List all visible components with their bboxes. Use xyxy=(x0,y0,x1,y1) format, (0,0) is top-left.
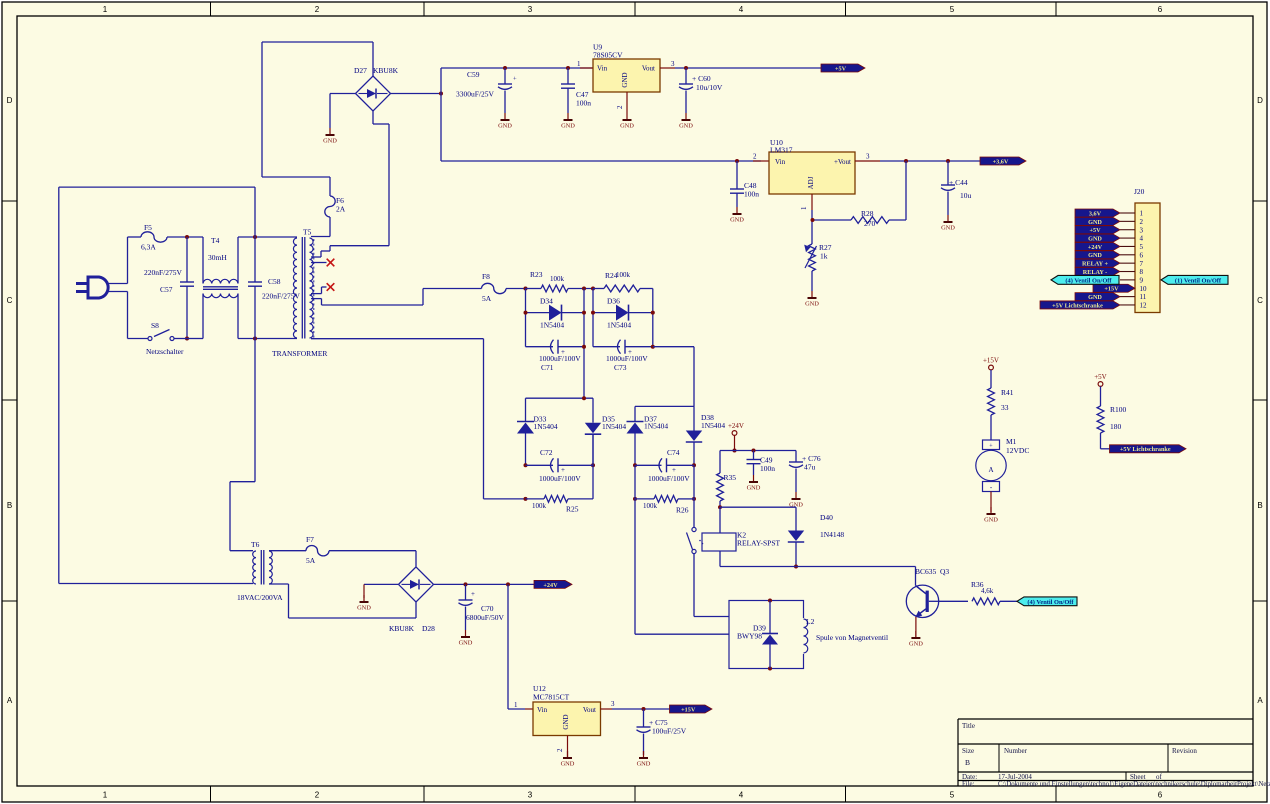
svg-text:C73: C73 xyxy=(614,363,627,372)
svg-text:3: 3 xyxy=(1140,226,1144,234)
svg-text:4: 4 xyxy=(739,5,744,14)
svg-text:100n: 100n xyxy=(744,190,759,199)
svg-text:+24V: +24V xyxy=(1088,244,1103,251)
svg-text:D28: D28 xyxy=(422,624,435,633)
svg-text:GND: GND xyxy=(621,72,629,87)
svg-text:Date:: Date: xyxy=(962,773,977,781)
svg-text:8: 8 xyxy=(1140,268,1144,276)
svg-text:4: 4 xyxy=(1140,235,1144,243)
svg-text:+15V: +15V xyxy=(1104,286,1119,293)
svg-text:BC635 Q3: BC635 Q3 xyxy=(915,567,949,576)
svg-text:B: B xyxy=(7,501,12,510)
svg-text:GND: GND xyxy=(679,123,693,130)
svg-text:1N5404: 1N5404 xyxy=(540,321,564,330)
svg-text:C: C xyxy=(1257,296,1263,305)
svg-text:S8: S8 xyxy=(151,321,159,330)
svg-text:R28: R28 xyxy=(861,209,874,218)
svg-text:C70: C70 xyxy=(481,604,494,613)
svg-text:L2: L2 xyxy=(806,617,815,626)
svg-text:Title: Title xyxy=(962,722,975,730)
svg-text:1000uF/100V: 1000uF/100V xyxy=(606,354,648,363)
svg-text:Vin: Vin xyxy=(775,158,786,166)
svg-text:18VAC/200VA: 18VAC/200VA xyxy=(237,593,283,602)
svg-text:B: B xyxy=(1257,501,1262,510)
svg-text:GND: GND xyxy=(805,301,819,308)
svg-text:GND: GND xyxy=(561,123,575,130)
svg-text:100k: 100k xyxy=(643,502,658,510)
svg-text:T6: T6 xyxy=(251,540,260,549)
svg-text:10: 10 xyxy=(1140,285,1148,293)
svg-text:TRANSFORMER: TRANSFORMER xyxy=(272,349,327,358)
svg-text:C: C xyxy=(7,296,13,305)
svg-text:2: 2 xyxy=(315,5,320,14)
svg-text:1N5404: 1N5404 xyxy=(534,422,558,431)
svg-text:1: 1 xyxy=(103,791,108,800)
svg-text:R26: R26 xyxy=(676,506,689,515)
svg-text:(4) Ventil On/Off: (4) Ventil On/Off xyxy=(1027,599,1074,606)
svg-text:GND: GND xyxy=(941,225,955,232)
svg-text:1: 1 xyxy=(103,5,108,14)
svg-text:GND: GND xyxy=(620,123,634,130)
svg-text:3: 3 xyxy=(611,700,615,708)
svg-text:3,6V: 3,6V xyxy=(1089,210,1102,217)
svg-text:5: 5 xyxy=(950,791,955,800)
svg-text:D36: D36 xyxy=(607,297,620,306)
svg-text:+5V: +5V xyxy=(1089,227,1101,234)
svg-text:+: + xyxy=(672,466,676,474)
svg-text:+5V Lichtschranke: +5V Lichtschranke xyxy=(1120,446,1171,453)
svg-text:F7: F7 xyxy=(306,535,314,544)
svg-text:47u: 47u xyxy=(804,463,816,472)
svg-text:+15V: +15V xyxy=(983,357,999,365)
svg-text:100uF/25V: 100uF/25V xyxy=(652,727,687,736)
svg-text:5A: 5A xyxy=(306,556,316,565)
svg-text:KBU8K: KBU8K xyxy=(389,624,415,633)
svg-text:A: A xyxy=(1257,696,1263,705)
svg-text:+5V Lichtschranke: +5V Lichtschranke xyxy=(1052,302,1103,309)
svg-text:C57: C57 xyxy=(160,285,173,294)
svg-text:Number: Number xyxy=(1004,747,1028,755)
svg-text:1000uF/100V: 1000uF/100V xyxy=(539,474,581,483)
svg-text:33: 33 xyxy=(1001,403,1009,412)
svg-text:T4: T4 xyxy=(211,236,220,245)
svg-text:R35: R35 xyxy=(724,473,737,482)
svg-text:3: 3 xyxy=(528,5,533,14)
svg-text:D: D xyxy=(7,96,13,105)
svg-text:10u/10V: 10u/10V xyxy=(696,83,723,92)
svg-text:C58: C58 xyxy=(268,277,281,286)
svg-text:100n: 100n xyxy=(760,464,775,473)
svg-text:3: 3 xyxy=(866,153,870,161)
svg-text:3300uF/25V: 3300uF/25V xyxy=(456,90,495,99)
svg-text:2: 2 xyxy=(616,105,624,109)
svg-text:2A: 2A xyxy=(336,205,346,214)
svg-text:12: 12 xyxy=(1140,302,1148,310)
svg-text:+: + xyxy=(513,76,517,83)
svg-text:12VDC: 12VDC xyxy=(1006,446,1029,455)
svg-text:RELAY -: RELAY - xyxy=(1083,269,1107,276)
svg-text:BWY98: BWY98 xyxy=(737,632,762,641)
svg-text:+5V: +5V xyxy=(1094,373,1107,381)
svg-text:RELAY-SPST: RELAY-SPST xyxy=(737,539,780,548)
svg-text:Spule von Magnetventil: Spule von Magnetventil xyxy=(816,633,888,642)
svg-text:1N5404: 1N5404 xyxy=(644,422,668,431)
svg-text:2: 2 xyxy=(315,791,320,800)
svg-text:10u: 10u xyxy=(960,191,972,200)
svg-text:LM317: LM317 xyxy=(770,146,793,155)
svg-text:D40: D40 xyxy=(820,513,833,522)
svg-text:100k: 100k xyxy=(532,502,547,510)
svg-text:1: 1 xyxy=(514,701,518,709)
svg-text:B: B xyxy=(965,758,970,767)
svg-text:C74: C74 xyxy=(667,448,680,457)
svg-text:J20: J20 xyxy=(1134,187,1145,196)
svg-text:R100: R100 xyxy=(1110,405,1127,414)
svg-text:6: 6 xyxy=(1158,791,1163,800)
svg-text:ADJ: ADJ xyxy=(807,176,815,189)
svg-text:GND: GND xyxy=(984,517,998,524)
svg-text:A: A xyxy=(988,466,993,474)
svg-text:(1) Ventil On/Off: (1) Ventil On/Off xyxy=(1175,277,1222,284)
svg-text:F5: F5 xyxy=(144,223,152,232)
svg-text:C72: C72 xyxy=(540,448,553,457)
svg-text:Revision: Revision xyxy=(1172,747,1197,755)
svg-text:3: 3 xyxy=(528,791,533,800)
svg-text:D27: D27 xyxy=(354,66,367,75)
svg-text:1000uF/100V: 1000uF/100V xyxy=(648,474,690,483)
svg-text:180: 180 xyxy=(1110,422,1122,431)
svg-text:GND: GND xyxy=(323,138,337,145)
svg-text:17-Jul-2004: 17-Jul-2004 xyxy=(998,773,1032,781)
svg-text:GND: GND xyxy=(1088,294,1102,301)
svg-text:30mH: 30mH xyxy=(208,253,227,262)
svg-text:220nF/275V: 220nF/275V xyxy=(144,268,183,277)
svg-text:5: 5 xyxy=(1140,243,1144,251)
svg-text:M1: M1 xyxy=(1006,437,1017,446)
svg-text:A: A xyxy=(7,696,13,705)
svg-text:D34: D34 xyxy=(540,297,553,306)
svg-text:GND: GND xyxy=(909,641,923,648)
svg-text:+15V: +15V xyxy=(681,706,696,713)
svg-text:GND: GND xyxy=(1088,252,1102,259)
svg-text:GND: GND xyxy=(730,217,744,224)
svg-text:R23: R23 xyxy=(530,270,543,279)
svg-text:6: 6 xyxy=(1140,251,1144,259)
svg-text:7: 7 xyxy=(1140,260,1144,268)
svg-text:1N4148: 1N4148 xyxy=(820,530,844,539)
svg-text:100k: 100k xyxy=(616,271,631,279)
svg-text:+: + xyxy=(471,590,475,598)
svg-text:5: 5 xyxy=(950,5,955,14)
svg-text:GND: GND xyxy=(1088,219,1102,226)
svg-text:+24V: +24V xyxy=(728,422,744,430)
svg-text:1: 1 xyxy=(1140,210,1144,218)
svg-text:3: 3 xyxy=(671,60,675,68)
svg-text:Vin: Vin xyxy=(597,65,608,73)
svg-text:6800uF/50V: 6800uF/50V xyxy=(466,613,505,622)
svg-text:1000uF/100V: 1000uF/100V xyxy=(539,354,581,363)
svg-text:MC7815CT: MC7815CT xyxy=(533,693,570,702)
svg-text:Vin: Vin xyxy=(537,706,548,714)
svg-text:+5V: +5V xyxy=(835,65,847,72)
svg-text:Sheet: Sheet xyxy=(1130,773,1146,781)
svg-text:1N5404: 1N5404 xyxy=(607,321,631,330)
svg-text:KBU8K: KBU8K xyxy=(373,66,399,75)
svg-text:GND: GND xyxy=(637,761,651,768)
svg-text:1N5404: 1N5404 xyxy=(602,422,626,431)
svg-text:5A: 5A xyxy=(482,294,492,303)
svg-text:GND: GND xyxy=(357,605,371,612)
svg-text:of: of xyxy=(1156,773,1163,781)
svg-text:Vout: Vout xyxy=(583,706,596,714)
svg-text:+24V: +24V xyxy=(543,582,558,589)
svg-text:1k: 1k xyxy=(820,252,828,261)
svg-text:6,3A: 6,3A xyxy=(141,243,156,252)
svg-text:1N5404: 1N5404 xyxy=(701,421,725,430)
svg-text:C:\Dokumente und Einstellungen: C:\Dokumente und Einstellungen\techno1\E… xyxy=(998,781,1270,788)
svg-text:2: 2 xyxy=(556,748,564,752)
svg-text:+ C44: + C44 xyxy=(949,178,968,187)
svg-text:1: 1 xyxy=(800,206,808,210)
svg-text:1: 1 xyxy=(577,60,581,68)
svg-text:11: 11 xyxy=(1140,293,1147,301)
svg-text:+: + xyxy=(561,466,565,474)
svg-text:6: 6 xyxy=(1158,5,1163,14)
svg-text:GND: GND xyxy=(561,761,575,768)
svg-text:100n: 100n xyxy=(576,99,591,108)
svg-text:GND: GND xyxy=(498,123,512,130)
svg-text:R25: R25 xyxy=(566,505,579,514)
svg-text:Netzschalter: Netzschalter xyxy=(146,347,184,356)
svg-text:270: 270 xyxy=(864,219,876,228)
svg-text:RELAY +: RELAY + xyxy=(1082,261,1108,268)
svg-text:T5: T5 xyxy=(303,228,312,237)
svg-text:GND: GND xyxy=(747,485,761,492)
svg-text:GND: GND xyxy=(459,640,473,647)
svg-text:100k: 100k xyxy=(550,275,565,283)
svg-text:2: 2 xyxy=(1140,218,1144,226)
svg-text:File:: File: xyxy=(962,781,975,788)
svg-text:GND: GND xyxy=(562,714,570,729)
svg-text:2: 2 xyxy=(753,153,757,161)
svg-text:4,6k: 4,6k xyxy=(981,587,994,595)
svg-text:GND: GND xyxy=(1088,235,1102,242)
svg-text:F8: F8 xyxy=(482,272,490,281)
svg-text:+3,6V: +3,6V xyxy=(993,158,1009,165)
svg-text:4: 4 xyxy=(739,791,744,800)
svg-text:Vout: Vout xyxy=(642,65,655,73)
svg-text:+ C60: + C60 xyxy=(692,74,711,83)
svg-text:C71: C71 xyxy=(541,363,554,372)
svg-text:9: 9 xyxy=(1140,276,1144,284)
svg-text:D: D xyxy=(1257,96,1263,105)
svg-text:R41: R41 xyxy=(1001,388,1014,397)
svg-text:C59: C59 xyxy=(467,70,480,79)
svg-text:+Vout: +Vout xyxy=(834,158,851,166)
svg-text:Size: Size xyxy=(962,747,974,755)
svg-text:78S05CV: 78S05CV xyxy=(593,51,623,60)
svg-text:(4) Ventil On/Off: (4) Ventil On/Off xyxy=(1065,277,1112,284)
